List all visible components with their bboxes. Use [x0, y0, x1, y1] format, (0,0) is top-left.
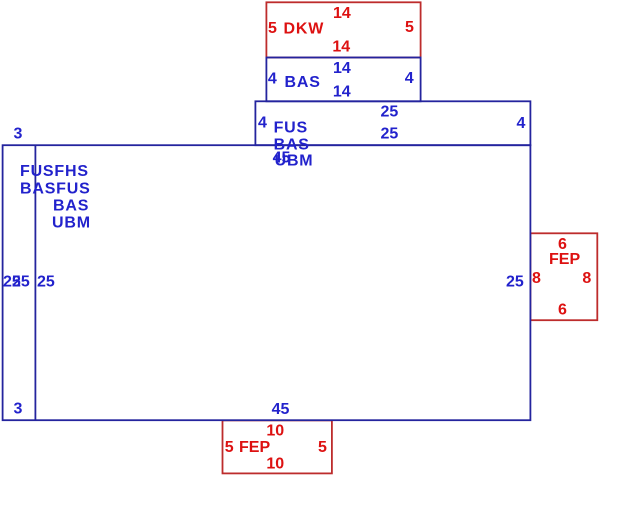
block FUS (blue rectangle, wide)	[255, 101, 530, 145]
svg-text:5: 5	[268, 20, 277, 37]
svg-text:14: 14	[332, 39, 350, 56]
block FEP right (red rectangle)	[530, 233, 597, 320]
svg-text:4: 4	[405, 70, 414, 87]
svg-text:FUS: FUS	[274, 119, 308, 136]
svg-text:UBM: UBM	[275, 153, 314, 170]
svg-text:45: 45	[272, 401, 290, 418]
svg-text:8: 8	[582, 270, 591, 287]
svg-text:5: 5	[318, 439, 327, 456]
svg-text:DKW: DKW	[284, 21, 325, 38]
svg-text:FEP: FEP	[239, 439, 270, 456]
svg-text:25: 25	[381, 125, 399, 142]
svg-text:25: 25	[12, 274, 30, 291]
block DKW (red rectangle, top)	[266, 2, 420, 57]
divider (vertical line inside main rect at x=36)	[34, 145, 36, 420]
svg-text:4: 4	[268, 71, 277, 88]
svg-text:FEP: FEP	[549, 251, 580, 268]
svg-text:3: 3	[14, 400, 23, 417]
svg-text:25: 25	[506, 274, 524, 291]
block BAS (blue rectangle, under DKW)	[266, 58, 420, 102]
block FEP bottom (red rectangle)	[223, 420, 332, 473]
block main (large blue rectangle)	[3, 145, 531, 420]
svg-text:5: 5	[225, 439, 234, 456]
svg-text:UBM: UBM	[52, 214, 91, 231]
svg-text:8: 8	[532, 270, 541, 287]
svg-text:5: 5	[405, 19, 414, 36]
svg-text:10: 10	[266, 423, 284, 440]
svg-text:3: 3	[14, 125, 23, 142]
svg-text:25: 25	[37, 274, 55, 291]
svg-text:4: 4	[517, 115, 526, 132]
svg-text:BASFUS: BASFUS	[20, 181, 91, 198]
svg-text:BAS: BAS	[285, 74, 321, 91]
svg-text:14: 14	[333, 83, 351, 100]
svg-text:4: 4	[258, 115, 267, 132]
svg-text:14: 14	[333, 5, 351, 22]
svg-text:BAS: BAS	[53, 198, 89, 215]
svg-text:FUSFHS: FUSFHS	[20, 163, 89, 180]
svg-text:6: 6	[558, 302, 567, 319]
svg-text:10: 10	[266, 456, 284, 473]
svg-text:25: 25	[381, 104, 399, 121]
svg-text:14: 14	[333, 60, 351, 77]
